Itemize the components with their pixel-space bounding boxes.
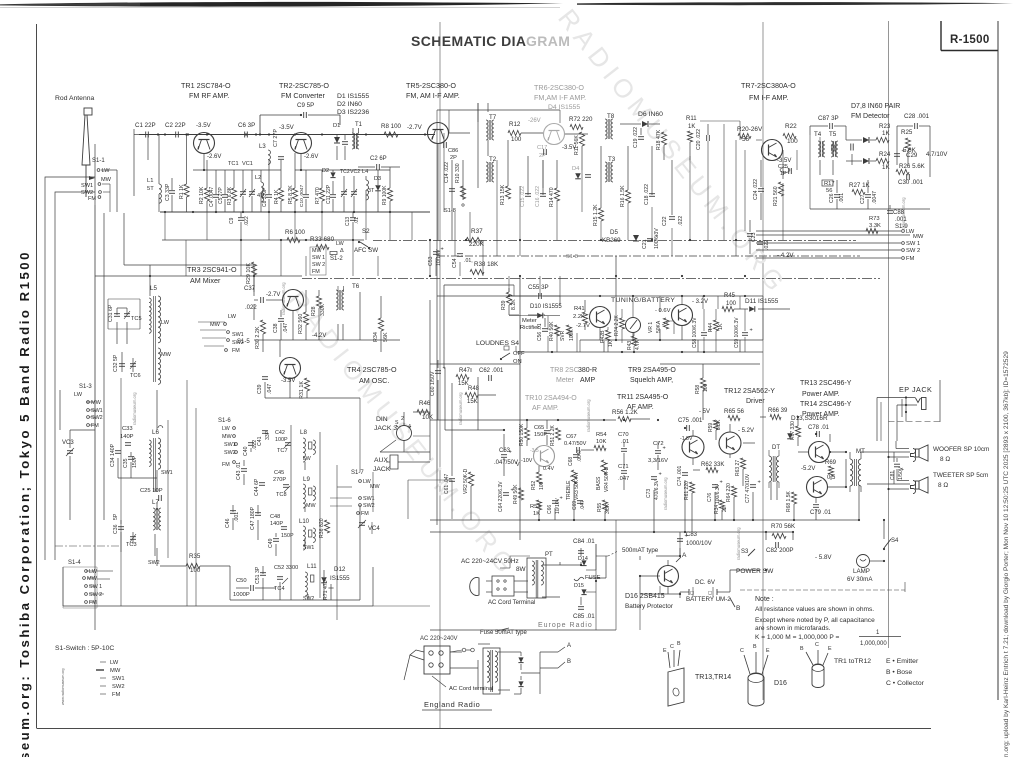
label AFC SW bbox=[340, 247, 378, 254]
svg-text:C9: C9 bbox=[229, 217, 235, 224]
svg-text:.022: .022 bbox=[245, 305, 257, 311]
svg-text:AFC SW: AFC SW bbox=[354, 247, 378, 254]
wire C36 col bbox=[121, 520, 157, 552]
svg-text:Fuse 50mAT type: Fuse 50mAT type bbox=[480, 630, 527, 636]
wire TC6 col bbox=[122, 352, 133, 372]
capacitor C16 .022 bbox=[535, 186, 546, 207]
capacitor C88 .001 bbox=[887, 210, 907, 223]
inductor L1 bbox=[0, 0, 1, 1]
svg-text:TC3: TC3 bbox=[126, 542, 137, 548]
svg-text:R23: R23 bbox=[879, 123, 891, 130]
diode D4 sym bbox=[572, 166, 581, 179]
capacitor C75 .001 bbox=[678, 418, 703, 431]
transistor TR9 bbox=[672, 305, 693, 326]
capacitor C49 150P bbox=[268, 533, 294, 548]
svg-text:B: B bbox=[677, 641, 681, 647]
capacitor C55 3P bbox=[510, 284, 560, 299]
svg-text:C71: C71 bbox=[618, 464, 629, 470]
svg-text:C45: C45 bbox=[274, 470, 284, 476]
capacitor C48 140P bbox=[270, 514, 287, 529]
note line2 bbox=[755, 617, 875, 624]
label -3.5V TR7 bbox=[777, 158, 791, 164]
capacitor C50 1000P bbox=[233, 578, 253, 598]
capacitor C13 .01 bbox=[345, 212, 360, 240]
switch rows right bbox=[902, 229, 924, 262]
svg-text:C17: C17 bbox=[537, 145, 547, 151]
wire tuner left box bbox=[108, 213, 140, 329]
label -18V bbox=[680, 436, 693, 442]
resistor R30 2.2K bbox=[255, 320, 266, 349]
svg-text:D6 IN60: D6 IN60 bbox=[638, 111, 663, 118]
svg-text:SW 1: SW 1 bbox=[312, 255, 325, 261]
note line4 bbox=[755, 630, 901, 647]
label S3 bbox=[741, 549, 755, 556]
wire S1-5 link bbox=[198, 322, 226, 346]
label -3.2V bbox=[692, 299, 708, 305]
resistor R26 5.6K bbox=[896, 163, 926, 175]
watermark small vertical 3 bbox=[663, 477, 668, 510]
svg-text:C34 140P: C34 140P bbox=[110, 443, 116, 467]
battery sym bbox=[689, 587, 717, 597]
resistor R59 3.3K bbox=[708, 419, 722, 432]
capacitor C35 150P bbox=[123, 455, 138, 468]
svg-text:Europe Radio: Europe Radio bbox=[538, 622, 593, 629]
svg-text:C49: C49 bbox=[268, 538, 274, 548]
label BATTERY bbox=[686, 596, 731, 603]
svg-text:C41: C41 bbox=[257, 436, 263, 446]
svg-text:AC Cord terminal: AC Cord terminal bbox=[449, 686, 493, 692]
note line1 bbox=[755, 606, 874, 613]
wire L5 col top bbox=[124, 265, 254, 296]
wire speaker leads bbox=[861, 399, 910, 492]
wire TC5 col bbox=[117, 308, 127, 344]
wire TR3 col bbox=[263, 290, 319, 352]
svg-text:R55: R55 bbox=[597, 503, 603, 512]
svg-text:D3: D3 bbox=[374, 176, 381, 182]
wire top-mid bus 240 bbox=[162, 239, 856, 242]
resistor R7 470 bbox=[315, 170, 325, 212]
svg-text:R43: R43 bbox=[627, 341, 633, 350]
svg-text:TC4: TC4 bbox=[274, 586, 285, 592]
bus under TR1 cluster bbox=[160, 211, 430, 213]
label R20 bbox=[737, 126, 763, 143]
svg-text:Except where noted by P,: Except where noted by P, all capacitance bbox=[755, 617, 875, 624]
wire center spine x520 bbox=[519, 276, 521, 540]
wire x660 col bbox=[654, 420, 692, 532]
capacitor C44 6P bbox=[254, 478, 265, 496]
svg-text:S1-8: S1-8 bbox=[444, 208, 456, 214]
svg-text:SW 2: SW 2 bbox=[906, 248, 920, 254]
svg-text:radiomuseum.org: radiomuseum.org bbox=[281, 282, 286, 315]
svg-text:SW 2: SW 2 bbox=[312, 262, 325, 268]
svg-text:AMP: AMP bbox=[580, 377, 596, 384]
svg-text:SW2: SW2 bbox=[303, 596, 314, 602]
svg-text:R35: R35 bbox=[189, 553, 201, 560]
trimmer TC6 bbox=[130, 361, 141, 379]
svg-text:- 4.2V: - 4.2V bbox=[777, 252, 794, 259]
label TR10 gray bbox=[525, 395, 577, 412]
label -0.6V bbox=[655, 308, 671, 314]
wire center spine x616 bbox=[615, 256, 617, 296]
wire S1-1 left drops bbox=[45, 177, 95, 221]
trimmer C31 6P bbox=[108, 304, 120, 322]
label -5.8V bbox=[815, 554, 832, 561]
coil L7 bbox=[148, 499, 161, 566]
resistor R56 1.2K bbox=[612, 409, 639, 422]
svg-text:E: E bbox=[663, 648, 667, 654]
svg-text:R34: R34 bbox=[373, 332, 379, 342]
svg-text:S1-5: S1-5 bbox=[237, 339, 250, 345]
resistor R24 1K bbox=[876, 151, 891, 171]
wire loudness col bbox=[452, 368, 496, 520]
svg-text:R58: R58 bbox=[695, 385, 701, 394]
transformer T2 bbox=[486, 156, 497, 182]
trimmer TC8 bbox=[276, 486, 290, 498]
diode D3 sym bbox=[374, 170, 381, 212]
svg-text:TC6: TC6 bbox=[130, 373, 141, 379]
page right long border bbox=[997, 21, 999, 700]
switch S4 bbox=[883, 538, 899, 550]
svg-text:D10 IS1555: D10 IS1555 bbox=[530, 304, 562, 310]
wire osc col x360 up bbox=[360, 398, 373, 512]
svg-text:SW1: SW1 bbox=[232, 332, 244, 338]
svg-text:50KA: 50KA bbox=[656, 320, 662, 333]
svg-text:C30 .001: C30 .001 bbox=[898, 179, 924, 186]
capacitor C74 .001 bbox=[677, 465, 688, 486]
resistor R5 8.2K bbox=[288, 153, 298, 212]
resistor R34b 22 bbox=[714, 500, 728, 514]
coil L9 bbox=[303, 476, 316, 509]
resistor R27 1K bbox=[849, 182, 871, 195]
transistor TR13 bbox=[809, 442, 830, 463]
speaker tweeter bbox=[911, 472, 989, 494]
label D1 D2 D3 list bbox=[337, 93, 369, 116]
resistor R13 15K bbox=[500, 184, 511, 205]
svg-text:- 5.8V: - 5.8V bbox=[815, 554, 832, 561]
svg-text:+: + bbox=[720, 480, 723, 486]
label TR12 bbox=[724, 388, 775, 405]
resistor R32 560 bbox=[298, 312, 309, 334]
wire ac220 label line bbox=[400, 644, 424, 648]
svg-text:TUNING/BATTERY: TUNING/BATTERY bbox=[611, 297, 675, 304]
svg-text:R64 220: R64 220 bbox=[726, 483, 732, 502]
wire midleft dashdot bbox=[55, 545, 121, 547]
svg-text:C42: C42 bbox=[275, 430, 285, 436]
coil L1 bbox=[147, 135, 161, 213]
svg-text:VR2 50K-D: VR2 50K-D bbox=[463, 468, 469, 494]
svg-text:SW2: SW2 bbox=[148, 560, 160, 566]
svg-text:LW: LW bbox=[110, 660, 119, 666]
svg-text:C47 180P: C47 180P bbox=[250, 506, 256, 530]
wire detector bus bbox=[810, 178, 930, 216]
svg-text:C59 100/6.3V: C59 100/6.3V bbox=[734, 317, 740, 348]
svg-text:C85 .01: C85 .01 bbox=[573, 613, 595, 620]
svg-text:+: + bbox=[441, 247, 444, 253]
svg-text:+: + bbox=[509, 450, 512, 456]
svg-text:R33 680: R33 680 bbox=[310, 236, 335, 243]
junction dots top bbox=[164, 114, 426, 136]
resistor R17 56 bbox=[822, 180, 835, 194]
svg-text:SW 1: SW 1 bbox=[906, 241, 920, 247]
capacitor C62 .001 bbox=[479, 368, 504, 381]
capacitor .022 right bbox=[757, 240, 770, 250]
capacitor C11 22P bbox=[326, 181, 336, 212]
transformer T5 bbox=[831, 141, 838, 157]
capacitor C56 .01 bbox=[537, 323, 548, 341]
svg-text:LAMP: LAMP bbox=[853, 568, 870, 575]
wire osc col feed bbox=[289, 352, 291, 357]
wire din col bbox=[404, 412, 430, 426]
coil L10 bbox=[299, 519, 315, 551]
svg-text:8 Ω: 8 Ω bbox=[938, 482, 948, 489]
svg-text:C58 100/6.3V: C58 100/6.3V bbox=[692, 317, 698, 348]
capacitor C61 .047 bbox=[444, 473, 455, 494]
capacitor C60 bbox=[430, 366, 446, 397]
trimmer TC3 bbox=[126, 534, 137, 548]
capacitor C34 140P bbox=[110, 443, 121, 467]
wire L1 top tap bbox=[148, 135, 165, 161]
svg-text:R8 100: R8 100 bbox=[381, 123, 402, 130]
capacitor C29 bbox=[894, 149, 948, 160]
capacitor C33 140P bbox=[120, 426, 134, 445]
transformer PT bbox=[527, 558, 546, 598]
wire antenna to S1-1 bbox=[85, 185, 87, 197]
svg-text:.022: .022 bbox=[244, 216, 250, 226]
trimmer TC5 bbox=[124, 311, 142, 322]
svg-text:2: 2 bbox=[401, 416, 404, 422]
svg-text:33P: 33P bbox=[265, 430, 271, 440]
svg-text:R65 56: R65 56 bbox=[724, 408, 745, 415]
resistor R37 220K bbox=[466, 228, 485, 248]
svg-text:C86: C86 bbox=[448, 148, 458, 154]
resistor R72 220 bbox=[569, 116, 593, 130]
resistor R42 1K bbox=[600, 327, 614, 352]
wire S1-6 col bbox=[244, 448, 262, 485]
svg-text:C68: C68 bbox=[568, 457, 574, 466]
label R22 bbox=[783, 123, 798, 145]
england terminal bbox=[404, 646, 450, 680]
svg-text:All resistance values are: All resistance values are shown in ohms. bbox=[755, 606, 874, 613]
svg-text:-2.7V: -2.7V bbox=[407, 124, 423, 131]
capacitor C37 .022 bbox=[244, 286, 263, 311]
switch S1-1 label bbox=[92, 158, 105, 164]
capacitor C24 .022 bbox=[753, 160, 764, 220]
wire tuning bus bbox=[437, 295, 763, 297]
wire C60 col bbox=[437, 360, 439, 420]
resistor R73 3.3K bbox=[866, 216, 881, 234]
wire squelch top bbox=[693, 308, 790, 310]
label -3.5V TR6 bbox=[562, 145, 576, 151]
svg-text:R72 220: R72 220 bbox=[569, 116, 593, 123]
svg-text:R66 39: R66 39 bbox=[768, 408, 788, 414]
label Europe Radio bbox=[538, 622, 593, 629]
svg-text:R5 8.2K: R5 8.2K bbox=[288, 185, 294, 204]
label TR2 bbox=[279, 81, 329, 100]
svg-text:TR3 2SC941-O: TR3 2SC941-O bbox=[187, 265, 237, 274]
transformer T7 bbox=[478, 103, 497, 140]
wire battery bus340 bbox=[580, 296, 763, 352]
capacitor C4 .0047 bbox=[209, 170, 219, 212]
rod antenna bbox=[82, 108, 92, 185]
resistor R31 1K bbox=[299, 378, 310, 399]
label TR3 bbox=[187, 265, 237, 285]
watermark small vertical 2 bbox=[586, 399, 591, 432]
page top edge scan band bbox=[0, 2, 1013, 8]
svg-text:SW 2: SW 2 bbox=[89, 592, 102, 598]
svg-text:R27 1K: R27 1K bbox=[849, 182, 871, 189]
svg-text:AUX: AUX bbox=[374, 457, 388, 464]
label AC cord bbox=[488, 600, 535, 606]
wire meter area bbox=[496, 288, 740, 352]
svg-text:.047: .047 bbox=[283, 323, 289, 333]
resistor R25 5.6K bbox=[901, 129, 917, 154]
resistor R48 15K bbox=[465, 386, 480, 405]
svg-text:Driver: Driver bbox=[746, 398, 765, 405]
label TR14 bbox=[800, 401, 852, 418]
label meter rectifier bbox=[520, 318, 539, 331]
svg-text:R-1500: R-1500 bbox=[950, 34, 990, 46]
diode D10 bbox=[530, 304, 562, 318]
svg-text:TWEETER SP 5cm: TWEETER SP 5cm bbox=[933, 472, 988, 479]
svg-text:C2 6P: C2 6P bbox=[370, 156, 387, 162]
svg-text:C78 .01: C78 .01 bbox=[808, 425, 830, 431]
svg-text:C70: C70 bbox=[618, 432, 629, 438]
diode D13 sym bbox=[787, 433, 793, 439]
svg-text:0.5: 0.5 bbox=[827, 475, 836, 481]
note line3 bbox=[755, 625, 831, 632]
legend rows bbox=[96, 660, 125, 698]
svg-text:R26 5.6K: R26 5.6K bbox=[899, 163, 926, 170]
resistor R15 1.2K bbox=[593, 204, 604, 226]
fold line A bbox=[439, 22, 441, 728]
svg-text:D1 IS1555: D1 IS1555 bbox=[337, 93, 369, 100]
label TR7 bbox=[741, 81, 796, 102]
ep jack sym bbox=[916, 398, 927, 410]
svg-text:VC1: VC1 bbox=[242, 161, 253, 167]
svg-text:TR11 2SA495-O: TR11 2SA495-O bbox=[617, 394, 669, 401]
svg-text:R63 27: R63 27 bbox=[735, 460, 741, 476]
label TR5 bbox=[406, 81, 460, 100]
svg-text:JACK: JACK bbox=[373, 466, 391, 473]
left rotated source caption bbox=[17, 250, 32, 757]
wire meter top bbox=[560, 296, 620, 307]
capacitor C66 bbox=[547, 496, 563, 515]
diode D1 sym bbox=[333, 123, 340, 160]
svg-text:Squelch AMP,: Squelch AMP, bbox=[630, 377, 673, 384]
svg-text:B: B bbox=[800, 646, 804, 652]
wire to C88 bbox=[889, 205, 891, 222]
wire england sec bbox=[450, 644, 558, 694]
diode D11 bbox=[745, 298, 779, 312]
svg-text:C53: C53 bbox=[428, 256, 434, 266]
transformer T6 bbox=[336, 283, 360, 310]
resistor R2 10K bbox=[199, 160, 210, 212]
label 10V 04V bbox=[521, 448, 554, 472]
svg-text:-3.5V: -3.5V bbox=[196, 122, 212, 129]
trimmer TC1 bbox=[228, 161, 246, 212]
svg-text:C6 3P: C6 3P bbox=[238, 122, 255, 129]
transistor TR7 bbox=[762, 140, 783, 161]
svg-text:TR1 2SC784-O: TR1 2SC784-O bbox=[181, 81, 231, 90]
svg-text:R69: R69 bbox=[825, 460, 837, 466]
capacitor C86 2P bbox=[444, 142, 459, 161]
speaker woofer bbox=[911, 445, 990, 463]
svg-text:+: + bbox=[659, 472, 662, 478]
svg-text:220K: 220K bbox=[469, 241, 485, 248]
svg-text:C62 .001: C62 .001 bbox=[479, 368, 504, 374]
wire bus 532 right bbox=[660, 531, 793, 533]
resistor R11 56K bbox=[574, 132, 585, 155]
coil L5 bbox=[149, 285, 172, 384]
svg-text:VR4 50K-B: VR4 50K-B bbox=[604, 466, 610, 492]
svg-text:3.3K: 3.3K bbox=[605, 503, 611, 514]
svg-text:C2 22P: C2 22P bbox=[165, 122, 186, 129]
wire af bus 520 bbox=[430, 519, 660, 521]
capacitor C83 bbox=[677, 532, 712, 547]
svg-text:2P: 2P bbox=[539, 153, 546, 159]
svg-text:R62 33K: R62 33K bbox=[701, 462, 724, 468]
svg-text:FM Detector: FM Detector bbox=[851, 113, 890, 120]
svg-text:MW: MW bbox=[312, 248, 322, 254]
svg-text:L10: L10 bbox=[299, 519, 310, 525]
label 500mAT bbox=[608, 547, 659, 556]
capacitor C51 3P bbox=[255, 566, 266, 584]
wire power bottom bbox=[640, 520, 884, 594]
capacitor C47 180P bbox=[250, 506, 261, 530]
label BASS VR4 bbox=[596, 460, 610, 492]
svg-text:SW1: SW1 bbox=[112, 676, 125, 682]
capacitor C1 bbox=[135, 122, 159, 138]
svg-text:380-R: 380-R bbox=[578, 367, 597, 374]
svg-text:+: + bbox=[655, 234, 658, 240]
svg-text:MW: MW bbox=[306, 503, 316, 509]
svg-text:500mAT type: 500mAT type bbox=[622, 547, 659, 554]
svg-text:.022: .022 bbox=[764, 240, 770, 250]
svg-text:FM,AM I-F AMP.: FM,AM I-F AMP. bbox=[534, 93, 586, 102]
diode D15 bbox=[574, 583, 587, 595]
ac plug bbox=[470, 576, 514, 596]
svg-text:.001: .001 bbox=[895, 217, 907, 223]
capacitor C58 bbox=[692, 309, 712, 352]
label SVR bbox=[560, 325, 575, 341]
resistor R1 1K bbox=[179, 135, 189, 213]
capacitor C67 bbox=[564, 434, 587, 453]
svg-text:-5.2V: -5.2V bbox=[801, 466, 815, 472]
svg-text:SW2: SW2 bbox=[112, 684, 125, 690]
svg-text:D16: D16 bbox=[774, 680, 787, 687]
svg-text:TR2-2SC785-O: TR2-2SC785-O bbox=[279, 81, 329, 90]
wire battery feed bbox=[596, 536, 680, 594]
wire center bus 364 bbox=[430, 363, 520, 365]
transformer DT bbox=[769, 445, 780, 488]
svg-text:T5: T5 bbox=[829, 131, 837, 138]
svg-text:-2.6V: -2.6V bbox=[304, 154, 318, 160]
svg-text:C56 .01: C56 .01 bbox=[537, 323, 543, 341]
capacitor C30 .001 bbox=[898, 174, 924, 186]
wire TR2 base taps bbox=[295, 154, 390, 172]
svg-text:4.7/10V: 4.7/10V bbox=[926, 151, 948, 158]
svg-text:R74 2.2K: R74 2.2K bbox=[614, 314, 620, 336]
resistor R38 18K bbox=[470, 261, 499, 275]
coil L6 bbox=[149, 426, 173, 492]
svg-text:Battery Protector: Battery Protector bbox=[625, 603, 674, 610]
svg-text:m.org; upload by Karl-Heinz En: m.org; upload by Karl-Heinz Entrich t 7.… bbox=[1003, 351, 1010, 757]
watermark diagonal 1 bbox=[552, 3, 794, 301]
svg-text:D7,8 IN60 PAIR: D7,8 IN60 PAIR bbox=[851, 103, 900, 110]
england transformer bbox=[483, 648, 500, 694]
svg-text:WOOFER SP 10cm: WOOFER SP 10cm bbox=[933, 446, 989, 453]
resistor R58 100 bbox=[695, 378, 709, 394]
